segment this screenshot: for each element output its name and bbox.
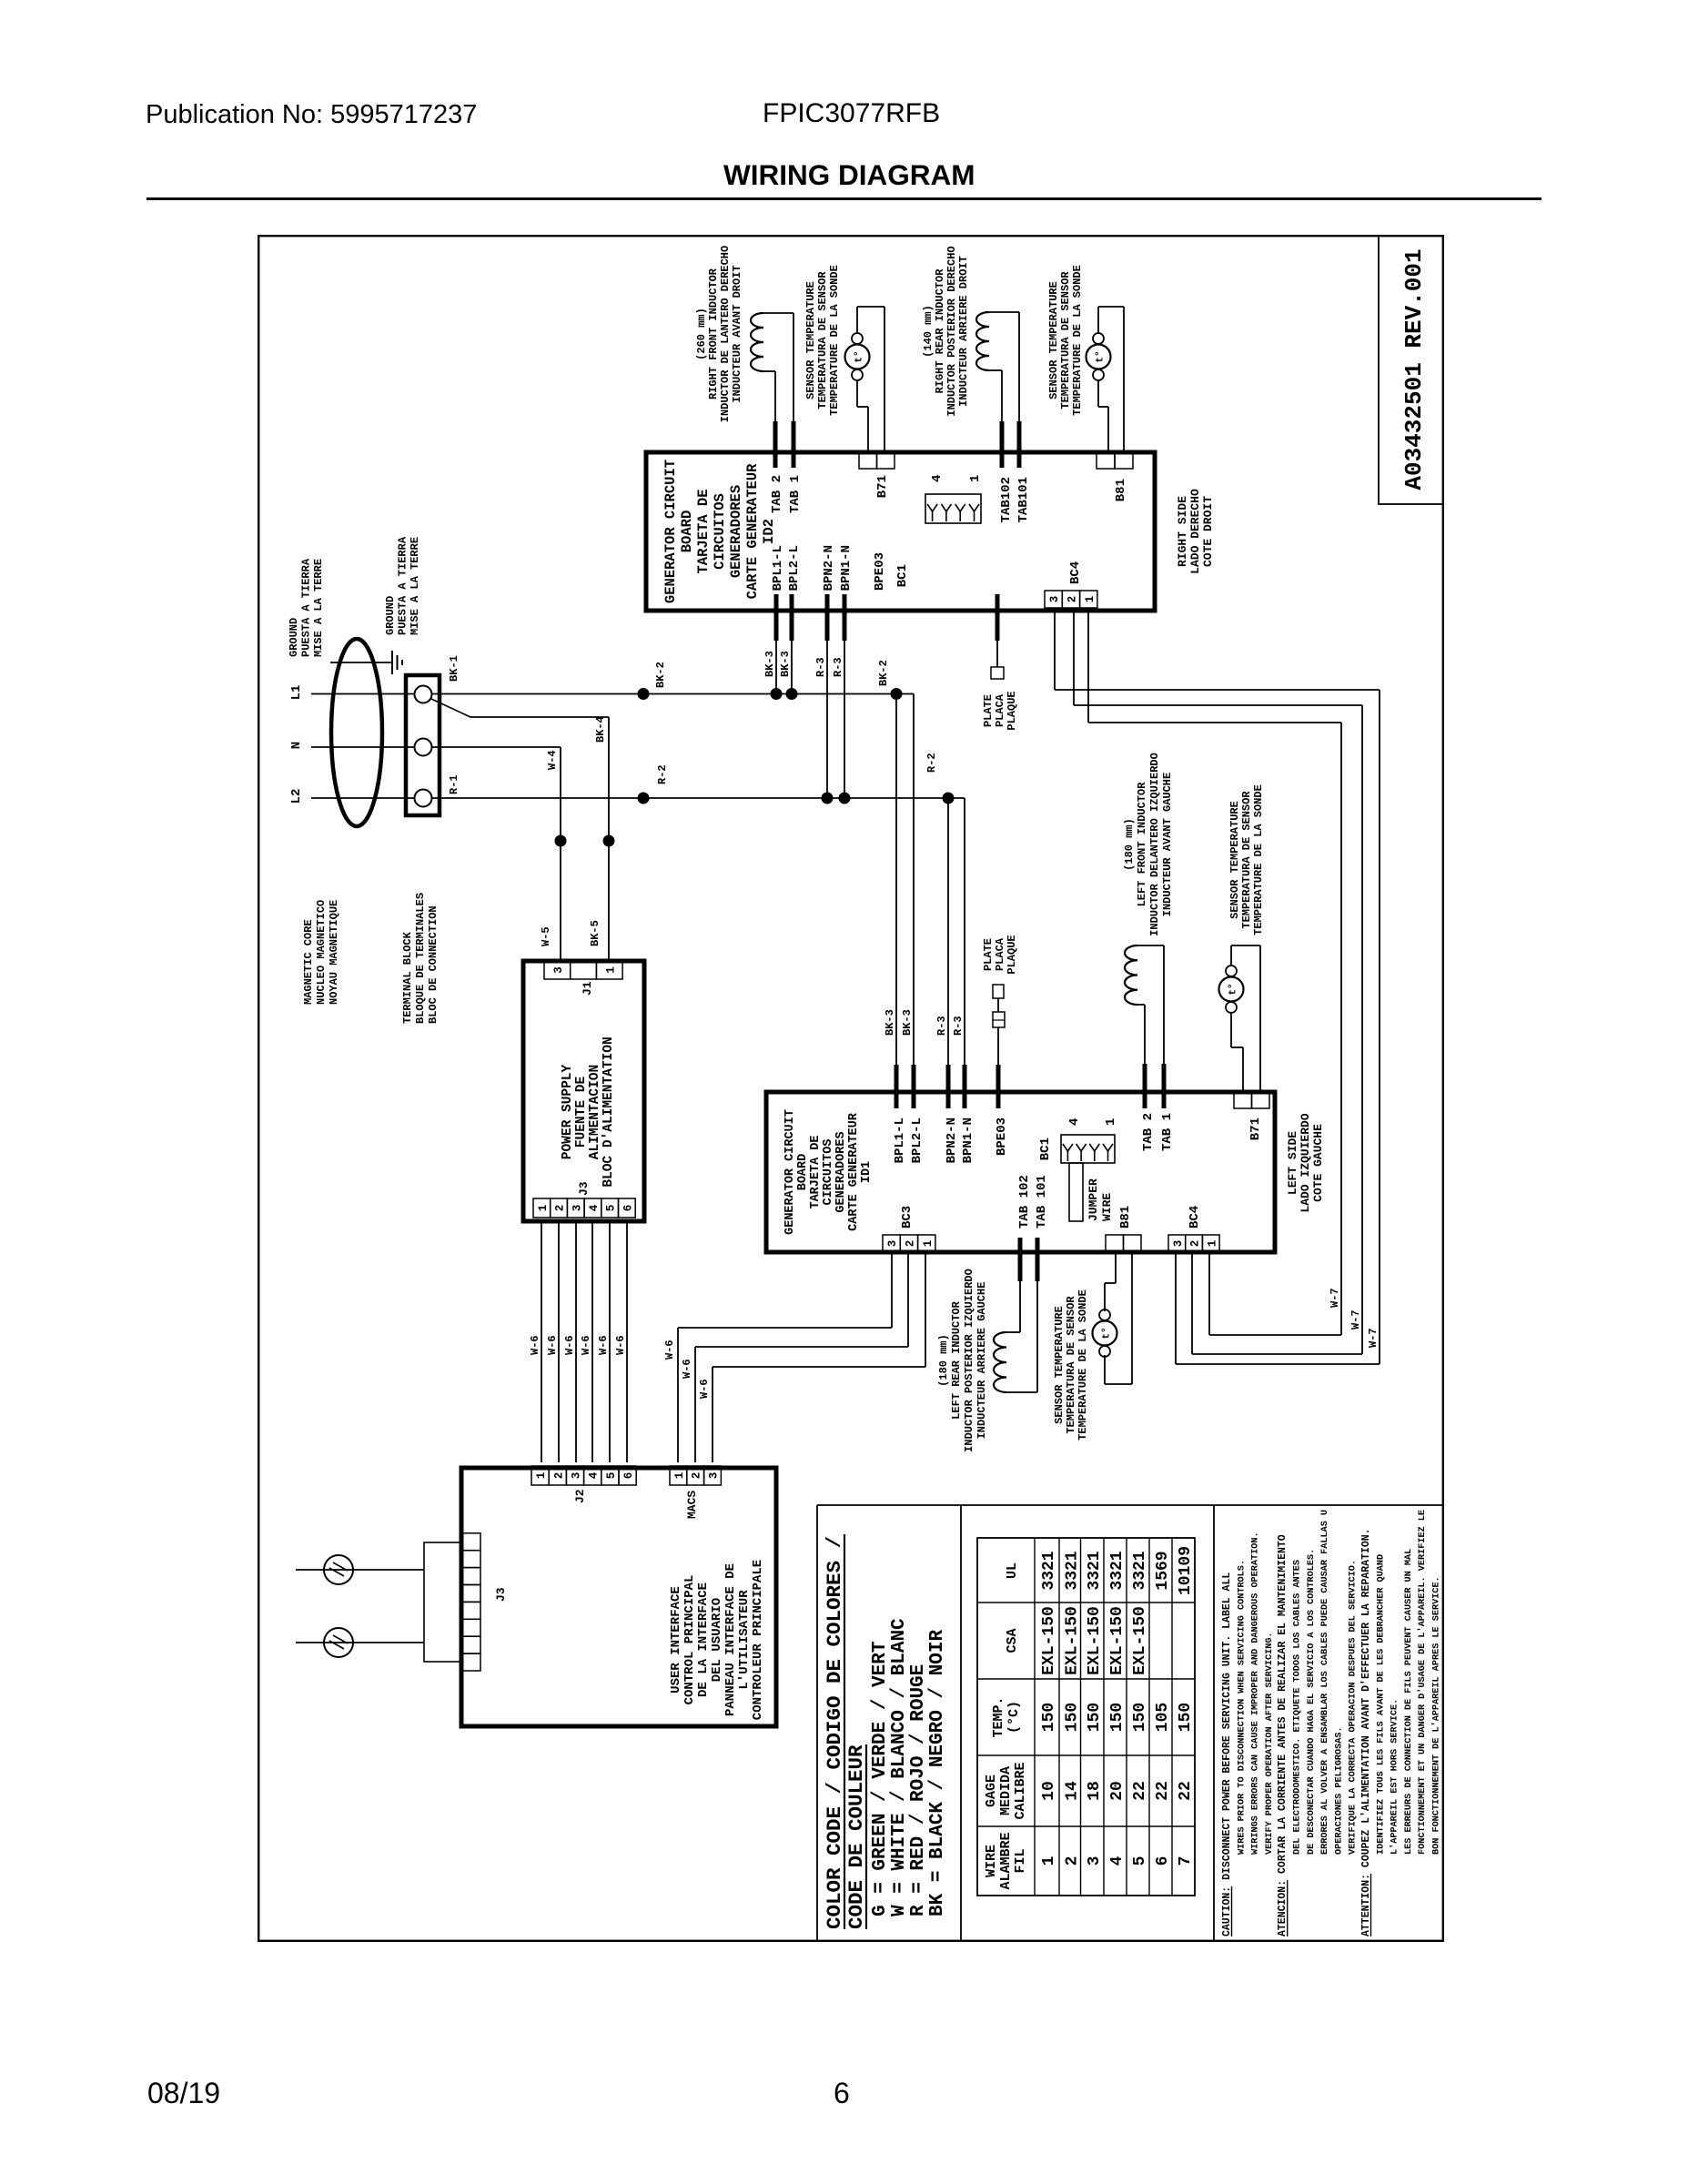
header rule	[147, 197, 1541, 200]
svg-text:10: 10	[1040, 1781, 1058, 1801]
ID1 pin TAB 1	[1162, 1064, 1167, 1108]
svg-text:W-5: W-5	[540, 926, 552, 946]
svg-text:WIRINGS ERRORS CAN CAUSE IMPRO: WIRINGS ERRORS CAN CAUSE IMPROPER AND DA…	[1251, 1532, 1261, 1855]
svg-text:PLACA: PLACA	[994, 937, 1006, 971]
connector B81 ID1	[1106, 1235, 1124, 1252]
svg-text:GENERADORES: GENERADORES	[728, 485, 744, 578]
svg-text:CSA: CSA	[1005, 1628, 1020, 1653]
svg-text:W-6: W-6	[698, 1379, 711, 1399]
svg-text:W-6: W-6	[563, 1335, 576, 1355]
svg-text:BOARD: BOARD	[679, 511, 695, 553]
svg-text:LADO IZQUIERDO: LADO IZQUIERDO	[1299, 1113, 1312, 1212]
wire N in	[311, 746, 415, 748]
svg-text:1: 1	[1084, 596, 1097, 603]
sensor left front	[1226, 1002, 1237, 1013]
inductor right front	[751, 313, 763, 371]
svg-text:R-1: R-1	[448, 774, 460, 794]
wire R-3 to ID1 BPN1-N	[964, 798, 965, 1065]
svg-text:COTE GAUCHE: COTE GAUCHE	[1311, 1124, 1325, 1202]
svg-text:PLAQUE: PLAQUE	[1006, 935, 1018, 974]
svg-text:BPE03: BPE03	[873, 552, 887, 591]
svg-text:105: 105	[1154, 1703, 1172, 1732]
svg-text:SENSOR TEMPERATURE: SENSOR TEMPERATURE	[1047, 281, 1060, 399]
wire W-7 ID2.1 to ID1.1	[1087, 610, 1089, 723]
svg-text:GENERADORES: GENERADORES	[834, 1131, 848, 1212]
svg-text:R-3: R-3	[832, 657, 844, 677]
svg-text:CALIBRE: CALIBRE	[1013, 1762, 1028, 1819]
svg-text:NOYAU MAGNETIQUE: NOYAU MAGNETIQUE	[328, 900, 340, 1005]
svg-text:TEMPERATURE DE LA SONDE: TEMPERATURE DE LA SONDE	[1071, 265, 1084, 416]
page number	[834, 2077, 850, 2110]
svg-text:1: 1	[537, 1205, 550, 1212]
junction dot R-2	[638, 793, 650, 804]
color code box	[817, 1504, 1444, 1506]
svg-text:TAB 102: TAB 102	[1017, 1175, 1032, 1228]
svg-text:W = WHITE / BLANCO / BLANC: W = WHITE / BLANCO / BLANC	[889, 1618, 910, 1916]
terminal block	[406, 675, 440, 815]
connector BC1 ID1	[1061, 1135, 1115, 1163]
svg-text:BPL2-L: BPL2-L	[910, 1117, 925, 1163]
ground	[391, 651, 393, 674]
svg-text:BK-1: BK-1	[448, 655, 460, 682]
svg-text:CONTROL PRINCIPAL: CONTROL PRINCIPAL	[682, 1575, 697, 1705]
plug circle 2	[324, 1628, 353, 1657]
svg-text:BLOC D'ALIMENTATION: BLOC D'ALIMENTATION	[601, 1036, 616, 1187]
svg-text:WIRE: WIRE	[984, 1845, 999, 1877]
svg-text:5: 5	[605, 1472, 618, 1480]
svg-text:ALAMBRE: ALAMBRE	[998, 1832, 1014, 1889]
svg-text:N: N	[289, 742, 304, 749]
svg-text:TERMINAL BLOCK: TERMINAL BLOCK	[401, 931, 414, 1024]
wire L1 to J1 (BK-4/BK-5)	[431, 699, 470, 717]
user interface board	[461, 1468, 776, 1726]
svg-text:PUESTA A TIERRA: PUESTA A TIERRA	[300, 558, 313, 657]
svg-text:GENERATOR CIRCUIT: GENERATOR CIRCUIT	[662, 460, 679, 603]
connector J3 power supply	[533, 1198, 551, 1218]
svg-text:DEL USUARIO: DEL USUARIO	[710, 1598, 724, 1682]
svg-text:B81: B81	[1118, 1206, 1133, 1228]
svg-text:(180 mm): (180 mm)	[1123, 818, 1136, 871]
svg-text:BPN2-N: BPN2-N	[822, 545, 836, 591]
svg-text:JUMPER: JUMPER	[1087, 1178, 1100, 1221]
svg-text:W-7: W-7	[1367, 1328, 1380, 1348]
jumper wire	[1069, 1163, 1083, 1221]
ID2 pin TAB 2	[773, 421, 778, 468]
svg-text:LES ERREURS DE CONNECTION DE F: LES ERREURS DE CONNECTION DE FILS PEUVEN…	[1404, 1549, 1414, 1855]
svg-text:MISE A LA TERRE: MISE A LA TERRE	[312, 559, 325, 657]
svg-text:CARTE GENERATEUR: CARTE GENERATEUR	[744, 463, 761, 600]
svg-text:3: 3	[708, 1472, 721, 1480]
svg-text:VERIFY PROPER OPERATION AFTER: VERIFY PROPER OPERATION AFTER SERVICING.	[1265, 1632, 1275, 1855]
svg-text:W-6: W-6	[580, 1335, 592, 1355]
svg-text:BLOC DE CONNECTION: BLOC DE CONNECTION	[427, 905, 440, 1024]
plug wire 2	[296, 1642, 424, 1643]
svg-text:GROUND: GROUND	[384, 596, 397, 635]
svg-text:L1: L1	[289, 685, 304, 701]
svg-text:3: 3	[552, 966, 565, 974]
svg-text:TAB 1: TAB 1	[788, 475, 803, 513]
svg-text:TAB101: TAB101	[1016, 477, 1031, 522]
ID2 plate	[996, 641, 998, 667]
svg-text:GAGE: GAGE	[984, 1774, 999, 1807]
svg-text:J2: J2	[573, 1489, 587, 1503]
wire W-6 BC3.1 to MACS.3	[925, 1252, 926, 1367]
connector BC4 ID2	[1045, 591, 1062, 608]
connector B71 ID2	[859, 453, 877, 469]
sensor left rear	[1099, 1346, 1110, 1357]
svg-text:EXL-150: EXL-150	[1063, 1606, 1081, 1675]
svg-text:COTE DROIT: COTE DROIT	[1201, 496, 1215, 567]
svg-text:PUESTA A TIERRA: PUESTA A TIERRA	[397, 536, 409, 635]
junction dot BPL1	[771, 688, 783, 700]
svg-text:3: 3	[1172, 1240, 1185, 1248]
svg-text:22: 22	[1177, 1781, 1195, 1801]
svg-text:LADO DERECHO: LADO DERECHO	[1188, 489, 1202, 574]
wire BK-3 to ID1 BPL1-L	[895, 694, 897, 1066]
svg-text:CAUTION: DISCONNECT POWER BEFO: CAUTION: DISCONNECT POWER BEFORE SERVICI…	[1221, 1572, 1233, 1936]
generator board ID2	[646, 452, 1155, 611]
svg-text:NUCLEO MAGNETICO: NUCLEO MAGNETICO	[315, 900, 328, 1005]
svg-text:5: 5	[1131, 1856, 1149, 1866]
date	[147, 2077, 220, 2110]
wire N to J1 (W-4/W-5)	[432, 746, 561, 748]
wire L2 in	[311, 797, 415, 799]
svg-text:WIRES PRIOR TO DISCONNECTION W: WIRES PRIOR TO DISCONNECTION WHEN SERVIC…	[1237, 1560, 1247, 1855]
svg-text:BPL1-L: BPL1-L	[771, 545, 785, 591]
svg-text:BC1: BC1	[895, 564, 910, 587]
svg-text:TEMP.: TEMP.	[991, 1696, 1006, 1737]
junction dot BK-2	[638, 688, 650, 700]
wire R-3 to ID2 BPN2-N	[826, 641, 828, 798]
connector BC3	[883, 1235, 900, 1252]
svg-text:10109: 10109	[1177, 1546, 1195, 1595]
wire W-7 ID2.2 to ID1.2	[1073, 610, 1075, 705]
svg-text:150: 150	[1177, 1703, 1195, 1732]
svg-text:1: 1	[922, 1240, 935, 1248]
svg-text:1: 1	[1104, 1118, 1118, 1126]
publication number	[146, 100, 477, 130]
svg-text:EXL-150: EXL-150	[1086, 1606, 1104, 1675]
plug circle 1	[324, 1555, 353, 1584]
svg-text:DEL ELECTRODOMESTICO. ETIQUETE: DEL ELECTRODOMESTICO. ETIQUETE TODOS LOS…	[1293, 1560, 1303, 1855]
svg-text:BPE03: BPE03	[995, 1117, 1009, 1156]
svg-text:3321: 3321	[1040, 1551, 1058, 1590]
svg-text:LEFT FRONT INDUCTOR: LEFT FRONT INDUCTOR	[1136, 782, 1148, 907]
svg-text:RIGHT FRONT INDUCTOR: RIGHT FRONT INDUCTOR	[707, 268, 720, 399]
svg-text:1: 1	[535, 1472, 548, 1480]
svg-text:2: 2	[1066, 596, 1078, 603]
svg-text:TEMPERATURE DE LA SONDE: TEMPERATURE DE LA SONDE	[828, 265, 841, 416]
svg-text:t°: t°	[1096, 350, 1107, 362]
svg-text:BC4: BC4	[1068, 561, 1083, 584]
ID2 pin BPE03	[996, 594, 1000, 641]
svg-text:POWER SUPPLY: POWER SUPPLY	[561, 1064, 575, 1159]
svg-text:W-6: W-6	[663, 1340, 676, 1360]
ID1 pin TAB 2	[1143, 1064, 1147, 1108]
sensor right rear	[1093, 369, 1104, 380]
model number	[763, 98, 940, 129]
svg-text:7: 7	[1177, 1856, 1195, 1866]
junction dot ID1 BPL1	[891, 688, 903, 700]
svg-text:INDUCTOR POSTERIOR DERECHO: INDUCTOR POSTERIOR DERECHO	[945, 246, 958, 416]
svg-text:1: 1	[604, 966, 617, 974]
svg-text:J1: J1	[581, 981, 594, 996]
page title	[723, 158, 975, 192]
svg-text:ATENCION: CORTAR LA CORRIENTE: ATENCION: CORTAR LA CORRIENTE ANTES DE R…	[1277, 1534, 1289, 1936]
svg-text:A03432501 REV.001: A03432501 REV.001	[1400, 248, 1428, 490]
svg-text:150: 150	[1131, 1703, 1149, 1732]
svg-text:3: 3	[571, 1472, 583, 1480]
svg-text:VERIFIQUE LA CORRECTA OPERACIO: VERIFIQUE LA CORRECTA OPERACION DESPUES …	[1349, 1560, 1359, 1855]
svg-text:INDUCTEUR ARRIERE GAUCHE: INDUCTEUR ARRIERE GAUCHE	[975, 1282, 988, 1440]
svg-text:MEDIDA: MEDIDA	[998, 1766, 1014, 1815]
svg-text:SENSOR TEMPERATURE: SENSOR TEMPERATURE	[804, 281, 817, 399]
svg-text:4: 4	[1108, 1855, 1127, 1865]
svg-text:BK-2: BK-2	[654, 662, 667, 688]
wire BK-3 to ID2 BPL1-L	[775, 641, 777, 694]
svg-text:1: 1	[968, 475, 983, 482]
svg-text:FUENTE DE: FUENTE DE	[574, 1077, 589, 1148]
svg-text:(260 mm): (260 mm)	[695, 308, 708, 360]
generator board ID1	[766, 1092, 1275, 1252]
svg-text:3321: 3321	[1063, 1551, 1081, 1590]
svg-text:TAB 1: TAB 1	[1160, 1113, 1175, 1151]
svg-text:TAB 2: TAB 2	[770, 475, 784, 513]
svg-text:CODE DE COULEUR: CODE DE COULEUR	[844, 1744, 868, 1929]
svg-text:6: 6	[622, 1205, 634, 1212]
sensor right front	[852, 369, 863, 380]
title block	[1379, 235, 1444, 504]
svg-text:IDENTIFIEZ TOUS LES FILS AVANT: IDENTIFIEZ TOUS LES FILS AVANT DE LES DE…	[1376, 1554, 1386, 1855]
svg-text:1569: 1569	[1154, 1551, 1172, 1590]
svg-text:W-6: W-6	[529, 1335, 541, 1355]
svg-text:RIGHT SIDE: RIGHT SIDE	[1176, 496, 1189, 567]
svg-text:PANNEAU INTERFACE DE: PANNEAU INTERFACE DE	[723, 1563, 738, 1716]
svg-text:INDUCTOR DE LANTERO DERECHO: INDUCTOR DE LANTERO DERECHO	[719, 246, 732, 422]
ID1 pin TAB 101	[1036, 1238, 1040, 1281]
inductor left rear	[994, 1332, 1006, 1392]
svg-text:BK-3: BK-3	[763, 651, 776, 677]
svg-text:t°: t°	[1228, 983, 1239, 995]
svg-text:3321: 3321	[1108, 1551, 1127, 1590]
svg-text:3321: 3321	[1086, 1551, 1104, 1590]
svg-text:EXL-150: EXL-150	[1040, 1606, 1058, 1675]
svg-text:ALIMENTACION: ALIMENTACION	[588, 1065, 602, 1159]
svg-text:3: 3	[1086, 1856, 1104, 1866]
svg-text:W-6: W-6	[614, 1335, 627, 1355]
ID2 pin TAB101	[1017, 421, 1022, 468]
svg-text:t°: t°	[854, 350, 865, 362]
svg-text:L2: L2	[289, 789, 304, 804]
svg-text:BC4: BC4	[1188, 1206, 1202, 1228]
svg-text:150: 150	[1086, 1703, 1104, 1732]
svg-text:14: 14	[1063, 1781, 1081, 1801]
ID2 pin TAB102	[1000, 421, 1005, 468]
svg-text:18: 18	[1086, 1781, 1104, 1801]
svg-text:(°C): (°C)	[1006, 1701, 1022, 1734]
svg-text:BK-4: BK-4	[594, 716, 607, 743]
svg-text:2: 2	[691, 1472, 703, 1480]
ID1 pin TAB 102	[1018, 1238, 1023, 1281]
svg-text:PLATE: PLATE	[982, 694, 995, 727]
svg-text:ID2: ID2	[761, 519, 777, 544]
svg-text:BK-3: BK-3	[779, 651, 792, 677]
svg-text:4: 4	[588, 1204, 601, 1211]
svg-text:BON FONCTIONNEMENT DE L'APPARE: BON FONCTIONNEMENT DE L'APPAREIL APRES L…	[1431, 1576, 1442, 1855]
diagram frame	[258, 235, 1444, 1942]
wire R-1/R-2 (L2)	[432, 797, 965, 799]
wire bundle J3-J2 (W-6 x6)	[541, 1221, 542, 1462]
svg-text:OPERACIONES PELIGROSAS.: OPERACIONES PELIGROSAS.	[1334, 1726, 1344, 1855]
svg-text:FIL: FIL	[1013, 1848, 1028, 1873]
svg-text:6: 6	[1154, 1856, 1172, 1866]
magnetic core	[331, 639, 382, 826]
svg-text:GENERATOR CIRCUIT: GENERATOR CIRCUIT	[783, 1109, 797, 1235]
connector B71 ID1	[1234, 1092, 1252, 1108]
svg-text:BC3: BC3	[900, 1206, 915, 1228]
svg-text:CONTROLEUR PRINCIPALE: CONTROLEUR PRINCIPALE	[751, 1560, 765, 1720]
svg-text:CIRCUITOS: CIRCUITOS	[822, 1139, 835, 1206]
connector B81 ID2	[1097, 453, 1115, 469]
svg-text:BC1: BC1	[1038, 1137, 1053, 1160]
wire L1 in	[311, 693, 415, 695]
plug wire 1	[296, 1569, 424, 1571]
svg-text:INDUCTEUR AVANT DROIT: INDUCTEUR AVANT DROIT	[731, 265, 743, 402]
svg-text:USER INTERFACE: USER INTERFACE	[669, 1586, 683, 1694]
svg-text:BPN2-N: BPN2-N	[945, 1117, 959, 1163]
connector J1	[544, 961, 571, 979]
svg-text:W-7: W-7	[1329, 1288, 1341, 1308]
ID1 pin BPE03	[996, 1065, 1001, 1108]
svg-text:R-2: R-2	[925, 753, 938, 773]
svg-text:R = RED / ROJO / ROUGE: R = RED / ROJO / ROUGE	[908, 1664, 929, 1916]
svg-text:W-6: W-6	[681, 1359, 693, 1379]
wire gauge table	[977, 1538, 1195, 1896]
junction dot BPL2	[786, 688, 798, 700]
svg-text:B71: B71	[875, 475, 890, 498]
svg-text:R-3: R-3	[952, 1016, 965, 1036]
wire W-7 ID2.3 to ID1.3	[1054, 610, 1056, 690]
wire W-6 BC3.3 to MACS.1	[891, 1252, 893, 1328]
svg-text:EXL-150: EXL-150	[1108, 1606, 1127, 1675]
svg-text:2: 2	[1189, 1240, 1202, 1248]
svg-text:TAB 101: TAB 101	[1035, 1175, 1049, 1228]
svg-text:TEMPERATURA DE SENSOR: TEMPERATURA DE SENSOR	[816, 271, 829, 409]
svg-text:PLAQUE: PLAQUE	[1006, 691, 1018, 730]
svg-text:1: 1	[1206, 1240, 1218, 1248]
wire W-6 BC3.2 to MACS.2	[907, 1252, 909, 1347]
svg-text:3: 3	[886, 1240, 899, 1248]
svg-text:GROUND: GROUND	[288, 618, 300, 657]
svg-text:MACS: MACS	[685, 1491, 699, 1519]
svg-text:TAB102: TAB102	[999, 477, 1014, 522]
svg-text:TARJETA DE: TARJETA DE	[809, 1135, 823, 1208]
svg-text:BOARD: BOARD	[796, 1154, 810, 1191]
svg-text:DE LA INTERFACE: DE LA INTERFACE	[696, 1582, 711, 1697]
junction dot BK-5	[603, 835, 615, 847]
svg-text:J3: J3	[577, 1181, 591, 1196]
svg-text:L'UTILISATEUR: L'UTILISATEUR	[737, 1590, 752, 1690]
svg-text:RIGHT REAR INDUCTOR: RIGHT REAR INDUCTOR	[934, 268, 946, 394]
svg-text:W-6: W-6	[597, 1335, 610, 1355]
svg-text:5: 5	[605, 1205, 618, 1212]
connector MACS	[670, 1466, 687, 1485]
connector J3 user interface	[424, 1542, 461, 1662]
svg-text:G = GREEN / VERDE / VERT: G = GREEN / VERDE / VERT	[870, 1642, 891, 1916]
junction dot BPN2	[822, 793, 834, 804]
svg-text:BK-3: BK-3	[884, 1009, 896, 1036]
svg-text:LEFT REAR INDUCTOR: LEFT REAR INDUCTOR	[950, 1300, 963, 1419]
svg-text:INDUCTEUR AVANT GAUCHE: INDUCTEUR AVANT GAUCHE	[1161, 773, 1174, 916]
svg-text:CARTE GENERATEUR: CARTE GENERATEUR	[847, 1112, 861, 1231]
svg-text:PLATE: PLATE	[982, 938, 995, 971]
svg-text:4: 4	[930, 475, 945, 482]
svg-text:UL: UL	[1005, 1562, 1020, 1579]
svg-text:W-6: W-6	[546, 1335, 559, 1355]
power supply box	[523, 961, 644, 1221]
svg-text:6: 6	[622, 1472, 635, 1480]
inductor right rear	[976, 312, 989, 370]
svg-text:22: 22	[1131, 1781, 1149, 1801]
svg-text:150: 150	[1063, 1703, 1081, 1732]
svg-text:WIRE: WIRE	[1100, 1193, 1114, 1221]
svg-text:DE DESCONECTAR CUANDO HAGA EL: DE DESCONECTAR CUANDO HAGA EL SERVICIO A…	[1307, 1549, 1317, 1855]
svg-text:20: 20	[1108, 1781, 1127, 1801]
svg-text:BK-2: BK-2	[877, 660, 890, 686]
svg-text:EXL-150: EXL-150	[1131, 1606, 1149, 1675]
svg-text:22: 22	[1154, 1781, 1172, 1801]
svg-text:150: 150	[1040, 1703, 1058, 1732]
connector BC1 ID2	[925, 494, 981, 523]
svg-text:INDUCTEUR ARRIERE DROIT: INDUCTEUR ARRIERE DROIT	[957, 256, 970, 407]
svg-text:W-4: W-4	[546, 750, 559, 770]
svg-text:SENSOR TEMPERATURE: SENSOR TEMPERATURE	[1053, 1306, 1066, 1424]
svg-text:4: 4	[588, 1471, 601, 1479]
svg-text:SENSOR TEMPERATURE: SENSOR TEMPERATURE	[1228, 801, 1241, 919]
svg-text:BK = BLACK / NEGRO / NOIR: BK = BLACK / NEGRO / NOIR	[927, 1630, 948, 1916]
svg-text:3: 3	[1048, 596, 1061, 603]
svg-text:BPL1-L: BPL1-L	[893, 1117, 907, 1163]
junction dot W-5	[555, 835, 567, 847]
svg-text:INDUCTOR DELANTERO IZQUIERDO: INDUCTOR DELANTERO IZQUIERDO	[1148, 753, 1161, 936]
connector BC4 ID1	[1168, 1235, 1186, 1252]
svg-text:COLOR CODE / CODIGO DE COLORES: COLOR CODE / CODIGO DE COLORES /	[823, 1536, 846, 1929]
inductor left front	[1125, 945, 1137, 1005]
svg-text:R-3: R-3	[814, 657, 827, 677]
svg-text:2: 2	[554, 1205, 567, 1212]
svg-text:2: 2	[552, 1472, 565, 1480]
svg-text:2: 2	[904, 1240, 916, 1248]
svg-text:TEMPERATURA DE SENSOR: TEMPERATURA DE SENSOR	[1240, 791, 1253, 929]
svg-text:TEMPERATURE DE LA SONDE: TEMPERATURE DE LA SONDE	[1252, 784, 1265, 935]
svg-text:BLOQUE DE TERMINALES: BLOQUE DE TERMINALES	[414, 893, 427, 1024]
svg-text:3321: 3321	[1131, 1551, 1149, 1590]
ID1 plate	[997, 1027, 999, 1065]
svg-text:TARJETA DE: TARJETA DE	[695, 489, 712, 573]
svg-text:ERRORES AL VOLVER A ENSAMBLAR: ERRORES AL VOLVER A ENSAMBLAR LOS CABLES…	[1320, 1510, 1330, 1855]
wire R-3 to ID1 BPN2-N	[947, 798, 949, 1065]
svg-text:INDUCTOR POSTERIOR IZQUIERDO: INDUCTOR POSTERIOR IZQUIERDO	[963, 1269, 975, 1452]
svg-text:t°: t°	[1102, 1327, 1113, 1339]
svg-text:BPN1-N: BPN1-N	[961, 1117, 975, 1163]
svg-text:B81: B81	[1114, 479, 1128, 501]
svg-text:MAGNETIC CORE: MAGNETIC CORE	[302, 919, 315, 1005]
svg-text:150: 150	[1108, 1703, 1127, 1732]
connector J2	[531, 1466, 549, 1485]
svg-text:FONCTIONNEMENT ET UN DANGER D': FONCTIONNEMENT ET UN DANGER D'USAGE DE L…	[1417, 1510, 1428, 1855]
svg-text:L'APPAREIL EST HORS SERVICE.: L'APPAREIL EST HORS SERVICE.	[1390, 1699, 1400, 1855]
ID2 pin TAB 1	[792, 421, 796, 468]
